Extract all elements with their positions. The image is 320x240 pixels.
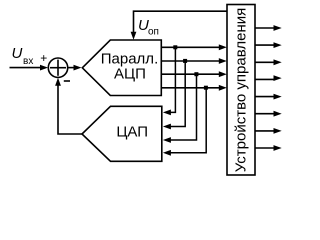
arrowhead into summer - input xyxy=(55,78,61,86)
arrowhead bit4 into control unit xyxy=(219,85,227,91)
control unit output wire 2 xyxy=(255,44,275,46)
control unit output wire 7 xyxy=(255,130,275,132)
junction node bit 2 xyxy=(183,59,187,63)
svg-text:АЦП: АЦП xyxy=(114,65,146,82)
minus sign label xyxy=(64,80,70,82)
svg-text:U: U xyxy=(12,45,23,62)
control unit output wire 8 xyxy=(255,147,275,149)
arrowhead out 7 xyxy=(274,128,282,134)
wire ADC output bit 2 xyxy=(161,60,220,62)
summing junction S1 xyxy=(48,58,67,77)
control unit block U1 xyxy=(227,5,255,176)
arrowhead into ADC top xyxy=(131,32,137,40)
wire bit 2 drop xyxy=(168,61,185,127)
svg-text:Устройство управления: Устройство управления xyxy=(233,8,250,172)
arrowhead bit4 into DAC xyxy=(163,150,171,156)
arrowhead out 1 xyxy=(274,25,282,31)
node Uop label xyxy=(138,17,159,38)
arrowhead into summer + input xyxy=(40,65,48,71)
wire Uvx input xyxy=(10,67,42,69)
junction node bit 4 xyxy=(204,86,208,90)
arrowhead bit1 into control unit xyxy=(219,44,227,50)
svg-text:вх: вх xyxy=(23,56,33,67)
wire summer to ADC xyxy=(68,67,75,69)
arrowhead into ADC xyxy=(74,65,82,71)
control unit output wire 3 xyxy=(255,61,275,63)
wire ADC output bit 4 xyxy=(161,87,220,89)
wire feedback from DAC to summer xyxy=(58,84,82,134)
wire ADC output bit 1 xyxy=(161,46,220,48)
control unit output wire 6 xyxy=(255,113,275,115)
wire bit 1 drop xyxy=(168,47,175,112)
arrowhead bit3 into control unit xyxy=(219,71,227,77)
arrowhead out 6 xyxy=(274,111,282,117)
control unit output wire 4 xyxy=(255,78,275,80)
node Uvx label xyxy=(12,45,34,67)
arrowhead bit2 into control unit xyxy=(219,58,227,64)
junction node bit 1 xyxy=(173,45,177,49)
arrowhead bit3 into DAC xyxy=(163,137,171,143)
wire bit 3 drop xyxy=(168,74,197,140)
op-amp block ADC (Parallel ADC) xyxy=(82,40,161,96)
converter block DAC xyxy=(82,106,162,161)
junction node bit 3 xyxy=(194,72,198,76)
arrowhead bit2 into DAC xyxy=(163,124,171,130)
wire Uop from control unit to ADC xyxy=(134,11,228,34)
control unit output wire 1 xyxy=(255,27,275,29)
svg-text:+: + xyxy=(40,51,47,65)
arrowhead out 4 xyxy=(274,75,282,81)
wire ADC output bit 3 xyxy=(161,73,220,75)
svg-text:ЦАП: ЦАП xyxy=(116,123,148,140)
wire bit 4 drop xyxy=(168,88,206,153)
svg-text:оп: оп xyxy=(148,27,159,38)
arrowhead out 3 xyxy=(274,59,282,65)
arrowhead out 5 xyxy=(274,94,282,100)
arrowhead bit1 into DAC xyxy=(163,110,171,116)
arrowhead out 2 xyxy=(274,42,282,48)
arrowhead out 8 xyxy=(274,145,282,151)
control unit output wire 5 xyxy=(255,96,275,98)
